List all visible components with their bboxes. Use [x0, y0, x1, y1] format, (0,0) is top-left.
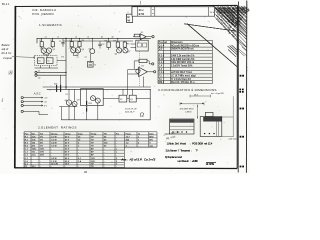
- svg-text:d1: d1: [101, 37, 103, 39]
- revision diagonal hatch with entries: [215, 6, 247, 51]
- revision diagonal boundary: [187, 24, 237, 67]
- stamp sub box: [127, 14, 133, 22]
- op-amp U3: [128, 65, 147, 76]
- svg-text:100n 63V MKT 10% ra: 100n 63V MKT 10% ra: [171, 61, 195, 64]
- svg-text:2.2u: 2.2u: [32, 155, 37, 157]
- transistor Q2: [46, 48, 56, 53]
- capacitor C2: [98, 41, 105, 49]
- resistor R2: [51, 38, 55, 48]
- svg-text:MHz: MHz: [149, 136, 153, 138]
- svg-text:A.DL.BL.P: A.DL.BL.P: [125, 111, 135, 114]
- label signal note: [125, 108, 137, 113]
- resistor R22: [60, 85, 61, 92]
- svg-text:Balanc: Balanc: [2, 43, 11, 47]
- config module body right: [200, 117, 222, 137]
- svg-text:e: e: [76, 55, 77, 57]
- svg-text:70°: 70°: [91, 146, 94, 148]
- svg-text:1%: 1%: [40, 146, 43, 148]
- svg-text:100n: 100n: [32, 149, 37, 151]
- transistor Q10: [91, 96, 96, 101]
- crystal box X1: [37, 58, 44, 64]
- drawing number stamp box: [132, 7, 215, 16]
- svg-text:SOLDER MOD: SOLDER MOD: [180, 108, 194, 110]
- strip sprocket hole pair 1: [240, 75, 244, 77]
- svg-text:1) Mob. Def. Vmod : POS: 1) Mob. Def. Vmod : POS DEM mk 12.4: [167, 144, 213, 146]
- crystal box X2: [46, 58, 53, 64]
- filter box F2: [129, 95, 136, 102]
- svg-text:18 V: 18 V: [65, 163, 70, 165]
- wire U4 out drop: [97, 103, 99, 120]
- svg-text:C1: C1: [59, 41, 61, 43]
- config right extension line: [222, 96, 233, 137]
- resistor R6: [105, 38, 111, 50]
- power terminal -Vs: [21, 101, 47, 104]
- svg-text:Dissip: Dissip: [51, 133, 58, 135]
- svg-text:2) b.Numer ´i´ Temperat :: 2) b.Numer ´i´ Temperat : T°: [166, 150, 198, 153]
- svg-text:0.2 W: 0.2 W: [51, 143, 56, 145]
- wire filter row: [103, 98, 150, 100]
- feedback resistor R30: [134, 59, 149, 69]
- revision diagonal hatch with entries: [213, 6, 247, 37]
- revision shallow fold line: [184, 24, 237, 31]
- svg-text:5%: 5%: [40, 143, 43, 145]
- svg-text:10%: 10%: [40, 152, 44, 154]
- margin annotation arrow: [12, 57, 35, 59]
- revision diagonal entry text: [215, 6, 246, 43]
- svg-text:B 52: B 52: [139, 12, 145, 16]
- revision diagonal entry text: [214, 6, 251, 28]
- revision shallow fold line: [184, 24, 237, 31]
- revision diagonal boundary: [187, 24, 237, 67]
- svg-text:1 A: 1 A: [78, 160, 82, 163]
- config drawing dimension line upper: [190, 94, 211, 97]
- svg-text:DM.1: DM.1: [159, 82, 165, 84]
- svg-text:50 mW: 50 mW: [51, 163, 58, 165]
- svg-text:Val: Val: [32, 133, 35, 135]
- svg-text:70°: 70°: [91, 136, 94, 138]
- revision shallow fold line: [184, 24, 237, 31]
- svg-text:kHz: kHz: [149, 140, 153, 142]
- strip sprocket hole cluster: [239, 89, 243, 93]
- svg-text:R21: R21: [54, 83, 57, 85]
- svg-text:A.S.C: A.S.C: [33, 91, 41, 95]
- svg-text:63 V: 63 V: [65, 146, 70, 148]
- resistor R21: [54, 83, 57, 92]
- IC block U2: [136, 40, 148, 51]
- svg-text:R.10: R.10: [159, 59, 165, 61]
- sheet border frame: [15, 5, 238, 168]
- svg-text:63 V: 63 V: [65, 149, 70, 151]
- wire input rail B: [37, 74, 66, 76]
- transformer T1: [88, 54, 97, 67]
- transistor Q1: [40, 48, 47, 53]
- svg-text:Ω: Ω: [140, 113, 144, 119]
- element ratings table text: [25, 132, 154, 168]
- svg-text:70°: 70°: [91, 143, 94, 145]
- svg-text:1/4W 2.2k met.film 1%: 1/4W 2.2k met.film 1%: [171, 54, 194, 57]
- net labels: [61, 57, 87, 59]
- wire pair to module: [46, 55, 48, 58]
- svg-text:85°: 85°: [91, 155, 94, 157]
- output terminal T2: [154, 71, 156, 73]
- output terminal T1: [149, 63, 154, 65]
- strip sprocket hole pair 2: [240, 108, 244, 110]
- config pin stub: [205, 112, 213, 116]
- element ratings table grid: [24, 132, 157, 168]
- svg-text:Q.1-4: Q.1-4: [159, 44, 165, 47]
- resistor R23: [86, 89, 92, 120]
- svg-text:c2: c2: [87, 37, 89, 39]
- wire mid rail C: [43, 86, 151, 88]
- svg-text:täv : d tps M3: täv : d tps M3: [211, 92, 224, 95]
- svg-text:1%: 1%: [40, 140, 43, 142]
- svg-text:Pos: Pos: [159, 42, 164, 44]
- svg-text:1%: 1%: [40, 136, 43, 138]
- svg-text:c1: c1: [57, 37, 59, 39]
- svg-text:R.1-9: R.1-9: [159, 55, 165, 57]
- resistor R3: [70, 38, 74, 48]
- config vertical dimension: [196, 105, 199, 119]
- fold tick mark: [139, 1, 141, 5]
- wire bottom return rail: [62, 89, 151, 120]
- transistor Q4: [75, 48, 85, 53]
- filter box F1: [119, 95, 127, 102]
- svg-text:wolf task: wolf task: [229, 138, 238, 141]
- wire lower cluster base: [59, 106, 77, 108]
- svg-text:1.SCHEMATIC: 1.SCHEMATIC: [39, 23, 63, 27]
- stamp sub box: [127, 14, 133, 22]
- wire second top rail: [63, 40, 133, 42]
- wire module stub down 2: [49, 66, 51, 68]
- svg-text:3.3k 1/8W met.film 5%: 3.3k 1/8W met.film 5%: [171, 58, 194, 61]
- title text block: [32, 8, 63, 27]
- svg-text:63 V: 63 V: [65, 152, 70, 154]
- svg-text:2N2907A BC557B sel.: 2N2907A BC557B sel.: [171, 48, 194, 51]
- svg-text:35 V: 35 V: [65, 155, 70, 157]
- svg-text:R23: R23: [88, 103, 91, 105]
- wire drop to bottom rail b: [68, 105, 70, 120]
- resistor R7: [114, 38, 120, 47]
- amplifier block box U4: [81, 89, 104, 106]
- svg-text:a2: a2: [75, 37, 77, 39]
- rail labels: [45, 37, 114, 39]
- wire op-amp ground drop: [143, 77, 145, 87]
- svg-text:LC 10.7 MHz mod. abgl: LC 10.7 MHz mod. abgl: [171, 76, 196, 78]
- power terminal +Vs: [21, 97, 47, 100]
- svg-text:POS. DEMOD: POS. DEMOD: [32, 12, 54, 16]
- svg-text:adj of: adj of: [2, 47, 9, 51]
- svg-text:BCxxxB 2N2222A a BCxxx: BCxxxB 2N2222A a BCxxx: [171, 44, 200, 47]
- svg-text:Unit: Unit: [149, 132, 153, 135]
- svg-text:Fm: Fm: [116, 133, 119, 135]
- resistor R1: [40, 38, 44, 48]
- strip sprocket hole pair 4: [240, 166, 244, 168]
- resistor R8: [123, 41, 130, 47]
- svg-text:125°: 125°: [91, 158, 95, 160]
- emitter labels: [46, 54, 77, 56]
- svg-text:L.MOD: L.MOD: [185, 111, 192, 113]
- svg-text:3) Replaced und: 3) Replaced und: [165, 157, 183, 159]
- strip sprocket hole pair 3: [240, 136, 244, 138]
- svg-text:C.1-3: C.1-3: [159, 62, 165, 64]
- stamp sub box: [127, 14, 133, 22]
- wire Q1-Q2 emitter link: [44, 53, 49, 55]
- svg-text:0.3 W: 0.3 W: [51, 158, 56, 160]
- hatch block corner: [228, 45, 239, 57]
- svg-text:0.1 W: 0.1 W: [51, 136, 56, 138]
- transistor Q7: [123, 48, 132, 53]
- svg-text:Dimension: Dimension: [171, 42, 183, 44]
- wire bus vertical: [65, 38, 67, 89]
- svg-text:und Result : +0.00: und Result : +0.00: [178, 160, 199, 163]
- svg-text:63 V: 63 V: [65, 140, 70, 142]
- capacitor C1: [59, 38, 65, 46]
- wire left rail drop: [36, 38, 38, 43]
- film strip margin: [238, 1, 247, 173]
- svg-text:Temp: Temp: [91, 133, 97, 135]
- wire tap down: [60, 75, 62, 87]
- svg-text:U2: U2: [137, 41, 139, 43]
- transistor Q6: [115, 48, 122, 56]
- config module body left: [170, 119, 194, 134]
- node junction rail A: [65, 72, 66, 73]
- wire top supply rail: [37, 37, 151, 39]
- wire U2 left connections: [131, 44, 136, 48]
- svg-text:U.1-3: U.1-3: [159, 72, 165, 74]
- revision diagonal boundary: [187, 24, 237, 67]
- config drawing dimension line top: [180, 102, 204, 105]
- svg-text:a4: a4: [85, 57, 87, 59]
- revision diagonal entry text: [213, 6, 250, 29]
- svg-text:a1: a1: [45, 37, 47, 39]
- svg-text:85°: 85°: [91, 152, 94, 154]
- wire drop to bottom rail a: [61, 107, 63, 120]
- wire mid rail D: [47, 88, 151, 90]
- svg-text:45 V: 45 V: [65, 157, 70, 160]
- transistor Q11: [95, 98, 100, 103]
- svg-text:d2: d2: [112, 37, 114, 39]
- wire module stub down: [40, 66, 42, 68]
- resistor R4: [78, 38, 85, 48]
- config label holder: [180, 108, 194, 113]
- svg-text:T1: T1: [94, 65, 96, 67]
- svg-text:10%: 10%: [40, 149, 44, 151]
- drawing number stamp box: [132, 7, 215, 16]
- dashed module box DM1: [35, 55, 57, 65]
- svg-text:63 V: 63 V: [65, 143, 70, 145]
- wire Q3-Q4 emitter link: [73, 53, 78, 56]
- svg-text:mA: mA: [149, 145, 153, 148]
- op-amp U1: [133, 32, 154, 39]
- node junction rail C: [65, 86, 66, 87]
- drawing number stamp box: [132, 7, 215, 16]
- strip top hatch: [239, 7, 247, 56]
- svg-text:24 c: 24 c: [139, 8, 145, 12]
- svg-text:Ans : H2 of S.P. Ca 2×√S: Ans : H2 of S.P. Ca 2×√S: [120, 158, 155, 162]
- input terminal IN1: [35, 71, 41, 74]
- transistor Q9: [72, 89, 80, 106]
- margin handwriting balance note: [2, 43, 13, 60]
- rail junction dots: [41, 38, 118, 39]
- transistor Q8: [65, 89, 72, 105]
- svg-text:Umax: Umax: [65, 133, 71, 135]
- svg-text:Mod X2 / 455 kHz ZF a: Mod X2 / 455 kHz ZF a: [171, 81, 195, 84]
- svg-text:Rx & Cx: Rx & Cx: [2, 51, 13, 55]
- svg-text:17h: 17h: [61, 57, 64, 59]
- ground stub terminal: [21, 110, 48, 114]
- svg-text:BL 2.1: BL 2.1: [2, 2, 10, 6]
- wire filter taps: [123, 89, 133, 95]
- svg-text:20%: 20%: [40, 155, 44, 157]
- power terminal 0V: [21, 104, 48, 107]
- svg-text:85°: 85°: [91, 149, 94, 151]
- op-amp output wire: [147, 71, 153, 73]
- wire input rail A: [37, 71, 66, 73]
- svg-text:Tol: Tol: [40, 133, 43, 135]
- svg-text:0.1 W: 0.1 W: [51, 146, 56, 148]
- svg-text:Fmax: Fmax: [126, 133, 132, 135]
- transistor Q5: [89, 38, 95, 53]
- svg-text:0.1 W: 0.1 W: [51, 140, 56, 142]
- wire module out: [57, 60, 66, 62]
- svg-text:63 V: 63 V: [65, 136, 70, 138]
- svg-text:B.U.8. PL.4P: B.U.8. PL.4P: [125, 108, 137, 110]
- parts list table grid: [158, 40, 212, 83]
- svg-text:2.2u/35V Tantal 20%: 2.2u/35V Tantal 20%: [171, 65, 192, 68]
- dashed signal line: [139, 51, 141, 87]
- transistor Q3: [70, 48, 77, 53]
- svg-text:C7: C7: [77, 57, 79, 59]
- handwritten slanted note: [163, 131, 180, 141]
- svg-text:e: e: [46, 54, 47, 56]
- svg-text:-Vs: -Vs: [44, 102, 47, 104]
- node junction top rail: [65, 38, 66, 39]
- wire opamp input vertical: [127, 69, 129, 95]
- parts list table text: [159, 42, 200, 84]
- svg-text:10 OHM: 10 OHM: [206, 164, 215, 166]
- svg-text:Tr 1:4 E12 Kern K1: Tr 1:4 E12 Kern K1: [171, 78, 192, 81]
- revision diagonal hatch with entries: [213, 6, 247, 37]
- svg-text:70°: 70°: [91, 166, 94, 168]
- wire module underline: [35, 67, 59, 69]
- svg-text:+Vs: +Vs: [44, 98, 48, 100]
- svg-text:4 equal: 4 equal: [3, 56, 12, 60]
- svg-text:uA741C DIL8 TI ind.: uA741C DIL8 TI ind.: [171, 71, 193, 74]
- svg-text:3.CONFIGURATION & DIMENSIONS: 3.CONFIGURATION & DIMENSIONS: [158, 88, 217, 92]
- wire drop to bottom rail c: [74, 106, 76, 120]
- svg-text:2.ELEMENT RATINGS: 2.ELEMENT RATINGS: [38, 125, 77, 129]
- input terminal IN2: [35, 74, 41, 79]
- svg-text:70°: 70°: [91, 140, 94, 142]
